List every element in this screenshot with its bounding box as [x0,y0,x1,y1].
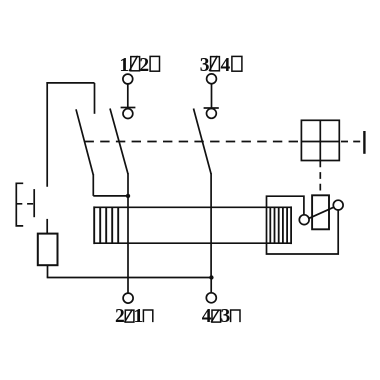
terminal 2 circle (bottom) [123,293,133,303]
resistor R (test resistor) [38,234,58,266]
terminal label 1/2 (top left) [119,55,149,76]
svg-text:2: 2 [139,55,149,76]
wire: test blade bottom vertical [92,174,94,196]
mechanism box vertical divider [319,120,321,160]
terminal 1 lower circle [123,109,133,119]
CT top rail (primary bus) [94,206,291,208]
operating mechanism box [301,120,339,160]
relay contact circle (left) [299,215,309,225]
dashed link: mechanism to trip armature [319,161,321,196]
push-button SB (test button) bracket [16,183,23,226]
terminal 1 upper circle [123,74,133,84]
push-button movable contact bar [33,189,35,217]
wire: pole 1 blade to node A [127,173,129,196]
terminal 3 upper circle [207,74,217,84]
wire: horizontal to pole1 node [93,195,128,197]
wire: pole 1 conductor through CT to bottom terminal [127,196,129,293]
terminal 3 link line [211,84,213,109]
pole 1 moving blade [110,109,128,175]
terminal 3 lower circle [207,109,217,119]
wire: bottom test wire to pole 2 [47,277,212,279]
terminal label 2/1 (bottom left) [115,306,143,327]
wire: resistor bottom stub [47,265,49,277]
terminal 1 link line [127,84,129,109]
test contact blade (switch S-test) [76,109,93,175]
wire: left vertical down to test button [46,82,48,187]
svg-text:1: 1 [119,55,129,76]
trip armature box [312,195,329,229]
svg-text:4: 4 [202,306,212,327]
push-button mechanical link (dashed) [16,203,34,205]
CT bottom rail (primary bus) [94,242,291,244]
svg-text:3: 3 [221,306,231,327]
pole 1 fixed contact bar [121,107,136,109]
wire: button lower terminal to resistor [46,219,48,234]
dashed link to handle terminal [341,141,362,143]
terminal 4 circle (bottom) [206,293,216,303]
mechanical linkage (dashed trip bar) [85,141,302,143]
relay contact blade [309,207,334,218]
CT secondary winding W2 (hatched) [270,206,291,244]
test contact fixed terminal stub [94,83,96,114]
pole 2 moving blade [194,109,212,175]
mechanism box horizontal divider [301,141,339,143]
pole 2 fixed contact bar [204,107,219,109]
relay contact circle (right) [333,200,343,210]
svg-text:1: 1 [134,306,144,327]
junction node B (test tap on pole 2) [209,275,213,279]
terminal label 3/4 (top right) [200,55,231,76]
junction node A (test tap on pole 1) [126,194,130,198]
wire: pole 2 to bottom terminal [210,278,212,293]
terminal label 4/3 (bottom right) [202,306,231,327]
svg-text:4: 4 [221,55,231,76]
wire: top-left horizontal from test-circuit branch [46,82,94,84]
trip relay K wiring loop [267,196,339,254]
handle / actuator bar [363,131,365,154]
CT primary winding W1 (hatched) [94,206,118,244]
svg-text:3: 3 [200,55,210,76]
wire: pole 2 conductor through CT [210,173,212,277]
svg-text:2: 2 [115,306,125,327]
